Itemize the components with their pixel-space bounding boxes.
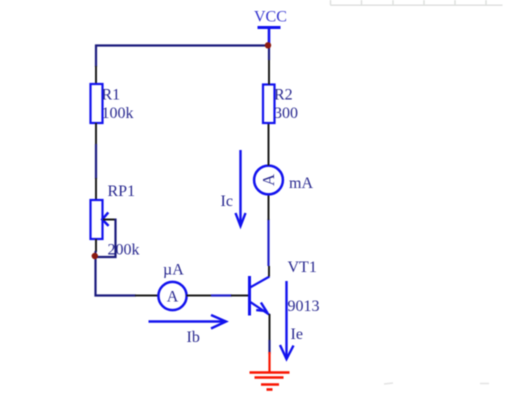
svg-text:R1: R1 [102, 87, 121, 104]
svg-text:R2: R2 [274, 87, 293, 104]
svg-text:µA: µA [163, 262, 184, 279]
wire ammeter to transistor base [187, 295, 249, 297]
potentiometer RP1 [91, 200, 109, 239]
svg-text:300: 300 [274, 105, 298, 122]
svg-text:A: A [167, 289, 179, 306]
svg-text:Ic: Ic [221, 193, 233, 210]
svg-text:Ie: Ie [291, 326, 303, 343]
junction dot at VCC node [265, 42, 271, 48]
wire RP1 bottom lead [95, 239, 97, 252]
current arrow Ib [149, 315, 227, 329]
power symbol VCC [258, 28, 281, 46]
svg-text:mA: mA [289, 175, 313, 192]
current arrow Ie [280, 281, 294, 359]
svg-text:VCC: VCC [254, 9, 287, 26]
wire RP1 wiper tap loop [97, 219, 116, 258]
svg-text:A: A [259, 174, 278, 186]
wire mA meter up to R2 bottom [268, 123, 270, 166]
svg-text:9013: 9013 [288, 298, 320, 315]
transistor VT1 (NPN) [250, 276, 270, 316]
wire rail to R1 top [95, 45, 97, 85]
ammeter A (microamp meter) [158, 282, 186, 310]
wire R1 bottom to RP1 top [95, 123, 97, 200]
wire emitter lead down to ground [269, 314, 271, 354]
current arrow Ic [236, 150, 246, 226]
resistor R1 [91, 84, 103, 123]
wire VCC rail horizontal [95, 44, 269, 46]
ground symbol [250, 352, 290, 390]
svg-text:VT1: VT1 [288, 259, 317, 276]
ammeter A (milliamp meter) [254, 166, 283, 195]
wire collector lead up to mA meter [268, 195, 271, 277]
background artifact: faint watermarks bottom [384, 383, 489, 384]
svg-text:RP1: RP1 [108, 183, 136, 200]
junction dot at RP1 bottom node [92, 253, 98, 259]
wire bottom left corner to ammeter [96, 251, 159, 296]
background artifact: table border fragment (top right) [331, 0, 503, 5]
svg-text:100k: 100k [102, 105, 134, 122]
resistor R2 [263, 85, 275, 124]
wire R2 top to VCC junction [268, 46, 270, 85]
svg-text:Ib: Ib [187, 329, 200, 346]
